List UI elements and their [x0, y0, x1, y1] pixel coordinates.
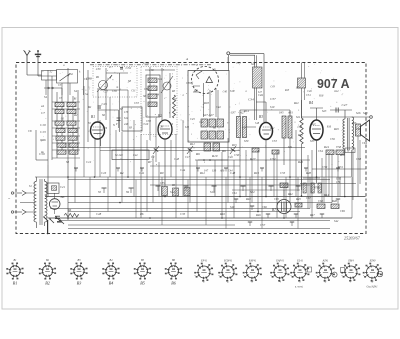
svg-text:R6: R6 [195, 152, 200, 156]
svg-text:R22: R22 [293, 101, 299, 105]
svg-text:C7: C7 [41, 111, 45, 115]
svg-text:B4: B4 [109, 281, 114, 286]
svg-text:a1: a1 [41, 104, 45, 108]
svg-text:C61: C61 [232, 191, 237, 195]
svg-text:R18: R18 [318, 94, 324, 97]
svg-text:C39: C39 [186, 81, 191, 85]
svg-text:C69: C69 [340, 209, 345, 213]
svg-text:S42: S42 [334, 219, 339, 223]
svg-text:C34: C34 [248, 98, 254, 102]
svg-text:C59: C59 [322, 165, 328, 169]
svg-text:S31: S31 [288, 145, 293, 149]
svg-text:1: 1 [203, 280, 205, 284]
svg-text:S33: S33 [310, 139, 315, 143]
svg-text:R40: R40 [245, 197, 251, 201]
svg-text:S1: S1 [44, 95, 48, 99]
svg-text:C60: C60 [356, 127, 361, 131]
svg-text:C45: C45 [242, 127, 247, 130]
svg-text:25269/67: 25269/67 [344, 236, 361, 241]
svg-text:C13: C13 [40, 130, 46, 134]
svg-text:C12: C12 [86, 160, 92, 164]
svg-text:C45: C45 [190, 117, 195, 121]
svg-text:C27: C27 [104, 91, 109, 94]
svg-text:B2: B2 [45, 281, 50, 286]
svg-text:C55: C55 [280, 171, 286, 175]
svg-text:R6: R6 [139, 212, 144, 216]
svg-text:EF41: EF41 [200, 259, 208, 262]
svg-text:S11: S11 [158, 77, 163, 81]
svg-text:B3: B3 [77, 281, 82, 286]
svg-text:5: 5 [299, 280, 301, 284]
svg-text:B1: B1 [13, 281, 18, 286]
svg-text:2: 2 [227, 280, 229, 284]
svg-text:AZ41: AZ41 [322, 259, 329, 262]
svg-text:R9: R9 [171, 184, 176, 187]
svg-text:R12: R12 [199, 171, 205, 175]
svg-text:S26: S26 [356, 111, 361, 115]
svg-text:B5: B5 [140, 281, 145, 286]
svg-text:R7: R7 [147, 160, 152, 164]
svg-text:C35: C35 [180, 212, 186, 216]
svg-text:R8: R8 [212, 127, 217, 130]
svg-text:EM4: EM4 [347, 259, 354, 262]
svg-text:R25: R25 [297, 133, 303, 137]
svg-text:C46: C46 [307, 90, 312, 93]
svg-text:R19: R19 [211, 154, 218, 158]
svg-text:C50: C50 [234, 153, 240, 157]
svg-text:R32: R32 [339, 153, 345, 157]
svg-text:B2: B2 [158, 114, 162, 118]
svg-text:m: m [116, 86, 118, 89]
svg-text:C57: C57 [260, 223, 266, 227]
svg-text:C3: C3 [58, 83, 62, 87]
svg-text:R12: R12 [269, 127, 275, 130]
svg-text:S23: S23 [322, 109, 327, 113]
svg-text:4: 4 [279, 280, 281, 284]
svg-text:S5: S5 [98, 190, 102, 194]
svg-text:S22: S22 [250, 190, 255, 194]
svg-text:R17: R17 [249, 157, 256, 161]
svg-text:S45: S45 [279, 111, 284, 115]
svg-text:B4: B4 [309, 101, 313, 105]
svg-text:C8: C8 [28, 129, 32, 133]
svg-text:R13: R13 [284, 89, 290, 92]
svg-text:S27 A27: S27 A27 [203, 113, 214, 117]
svg-text:R1: R1 [95, 75, 100, 79]
svg-text:C54: C54 [318, 149, 323, 153]
svg-text:C43: C43 [174, 157, 180, 161]
svg-text:Gez./AZ41: Gez./AZ41 [366, 286, 378, 289]
svg-text:S16: S16 [230, 89, 235, 93]
svg-text:C48: C48 [230, 171, 236, 175]
svg-text:ECH41: ECH41 [223, 259, 233, 262]
svg-text:C64: C64 [362, 141, 367, 145]
svg-text:B6: B6 [61, 195, 65, 199]
svg-text:s: s [227, 121, 228, 124]
svg-text:R15: R15 [231, 143, 237, 147]
svg-text:R4: R4 [119, 171, 124, 175]
svg-text:C30: C30 [112, 89, 117, 93]
svg-text:S25: S25 [352, 121, 357, 125]
svg-text:R10: R10 [203, 101, 209, 105]
svg-text:C33: C33 [236, 62, 241, 65]
svg-text:C58: C58 [336, 145, 342, 149]
svg-text:u. verst.: u. verst. [295, 286, 304, 289]
svg-text:C34: C34 [143, 61, 149, 65]
svg-text:S3: S3 [66, 160, 70, 164]
svg-text:C30: C30 [96, 68, 101, 71]
svg-text:pu: pu [40, 150, 45, 154]
svg-text:C62: C62 [318, 199, 324, 203]
svg-text:R28: R28 [305, 171, 311, 175]
svg-text:S13: S13 [194, 90, 199, 93]
svg-text:C66: C66 [262, 205, 267, 209]
svg-text:C41: C41 [199, 121, 204, 124]
svg-text:C48: C48 [298, 126, 303, 129]
svg-text:R11: R11 [189, 142, 195, 146]
svg-text:C25: C25 [102, 102, 108, 106]
svg-text:C53: C53 [272, 139, 277, 143]
svg-text:C56: C56 [330, 137, 335, 141]
svg-text:C65: C65 [274, 197, 279, 201]
svg-text:S30: S30 [244, 139, 249, 143]
svg-text:C63: C63 [356, 157, 362, 161]
svg-text:S14: S14 [170, 190, 175, 194]
svg-text:R14: R14 [243, 109, 249, 113]
svg-text:8: 8 [372, 280, 374, 284]
svg-text:R29: R29 [333, 127, 339, 131]
svg-text:N: N [112, 124, 115, 127]
svg-text:S20: S20 [363, 111, 368, 115]
svg-text:C36: C36 [144, 87, 149, 91]
svg-text:C52: C52 [270, 157, 276, 161]
svg-text:B1: B1 [91, 115, 95, 119]
svg-text:C32: C32 [126, 66, 132, 70]
svg-text:C47: C47 [342, 103, 348, 107]
svg-text:4700: 4700 [314, 186, 320, 190]
svg-text:S10: S10 [212, 170, 217, 173]
svg-text:R16: R16 [326, 125, 332, 128]
svg-text:C37: C37 [270, 97, 276, 101]
svg-text:R16: R16 [219, 212, 225, 216]
svg-text:EL41: EL41 [296, 259, 303, 262]
svg-text:C44: C44 [180, 168, 186, 172]
svg-text:R5: R5 [171, 89, 176, 93]
svg-text:C17: C17 [185, 156, 190, 159]
svg-text:R9: R9 [159, 171, 164, 175]
svg-text:S19: S19 [270, 105, 275, 109]
svg-text:EAF41: EAF41 [248, 259, 257, 262]
svg-text:C38: C38 [159, 126, 164, 129]
svg-text:A31: A31 [287, 111, 293, 115]
svg-text:C49: C49 [228, 156, 233, 159]
svg-text:C10: C10 [40, 123, 46, 127]
svg-text:C51: C51 [306, 93, 311, 97]
svg-text:EZ40: EZ40 [369, 259, 376, 262]
svg-text:C40: C40 [223, 90, 228, 93]
svg-text:7: 7 [350, 280, 352, 284]
svg-text:S9: S9 [126, 190, 130, 194]
svg-text:S37: S37 [231, 111, 236, 115]
svg-text:C37: C37 [172, 98, 177, 101]
svg-text:C29: C29 [103, 127, 108, 130]
svg-text:C35: C35 [160, 182, 165, 185]
svg-text:B3: B3 [259, 115, 263, 119]
svg-text:C43: C43 [270, 86, 275, 89]
svg-text:R2: R2 [87, 105, 92, 109]
svg-text:C33: C33 [134, 101, 139, 105]
svg-text:hF: hF [347, 150, 350, 153]
svg-text:C4: C4 [84, 77, 88, 81]
svg-text:C21: C21 [60, 185, 66, 189]
svg-text:C28: C28 [96, 212, 102, 216]
svg-text:3: 3 [252, 280, 254, 284]
svg-text:S21: S21 [296, 115, 301, 119]
svg-text:S28: S28 [251, 63, 256, 66]
svg-text:C42: C42 [216, 105, 221, 109]
svg-text:B7: B7 [272, 208, 276, 212]
svg-text:R19: R19 [253, 171, 259, 175]
svg-text:6: 6 [325, 280, 327, 284]
svg-text:C31: C31 [131, 90, 136, 93]
svg-text:R26: R26 [297, 160, 303, 164]
svg-text:S18: S18 [210, 190, 215, 194]
svg-text:R24: R24 [323, 145, 329, 149]
svg-text:C41: C41 [139, 171, 145, 175]
svg-text:C16: C16 [101, 171, 107, 175]
svg-text:C67: C67 [306, 196, 311, 200]
svg-text:R46: R46 [255, 213, 261, 217]
svg-text:EAF41: EAF41 [275, 259, 284, 262]
